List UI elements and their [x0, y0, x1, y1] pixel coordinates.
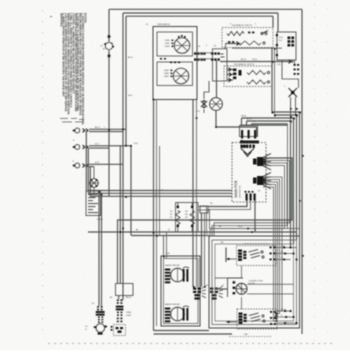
svg-text:P1: P1	[266, 155, 268, 157]
svg-text:P8: P8	[206, 285, 208, 287]
svg-text:(8101P547-60): (8101P547-60)	[240, 185, 242, 197]
svg-text:P7: P7	[222, 285, 224, 287]
svg-text:W-14: W-14	[128, 95, 132, 97]
svg-text:DSI: DSI	[205, 233, 208, 235]
svg-text:BR-16: BR-16	[126, 297, 131, 299]
svg-text:BAKE RELAY: BAKE RELAY	[165, 303, 181, 306]
svg-text:BK-12: BK-12	[128, 57, 133, 59]
svg-text:LAMP: LAMP	[164, 69, 170, 72]
svg-text:N-GRD: N-GRD	[97, 219, 103, 221]
svg-text:P2: P2	[214, 46, 216, 48]
svg-text:OVEN: OVEN	[165, 46, 171, 48]
svg-text:LAMP: LAMP	[164, 75, 170, 78]
svg-text:LAMP: LAMP	[164, 72, 170, 75]
svg-text:BK-12: BK-12	[95, 127, 100, 129]
svg-text:L1: L1	[155, 195, 157, 197]
svg-text:OVEN: OVEN	[165, 40, 171, 42]
svg-text:SURFACE UNITS: SURFACE UNITS	[234, 63, 255, 66]
svg-text:P3: P3	[258, 191, 260, 193]
svg-text:P4: P4	[146, 24, 148, 26]
svg-text:2: 2	[206, 45, 207, 47]
svg-text:MAIN PCB: MAIN PCB	[234, 180, 238, 198]
svg-text:OR-14: OR-14	[241, 116, 246, 118]
svg-text:P9: P9	[198, 46, 200, 48]
svg-text:R-14: R-14	[281, 245, 285, 247]
svg-text:SURFACE UNITS: SURFACE UNITS	[232, 24, 253, 27]
svg-text:GY-16: GY-16	[252, 59, 257, 61]
svg-text:R-10: R-10	[134, 143, 138, 145]
svg-text:SERVICING.: SERVICING.	[59, 13, 62, 28]
svg-text:8: 8	[230, 24, 231, 26]
svg-text:OVEN SENSOR: OVEN SENSOR	[157, 24, 171, 26]
svg-text:OVEN: OVEN	[126, 312, 132, 314]
svg-text:P3: P3	[92, 303, 94, 305]
svg-text:W-14: W-14	[238, 226, 242, 228]
svg-text:R-12: R-12	[95, 143, 99, 145]
svg-text:BU-14: BU-14	[247, 119, 252, 121]
svg-text:OVEN: OVEN	[165, 43, 171, 45]
svg-text:P2: P2	[266, 174, 268, 176]
svg-text:BAKE RELAY: BAKE RELAY	[165, 264, 181, 267]
svg-text:BR-16: BR-16	[241, 59, 246, 61]
svg-text:L2: L2	[72, 160, 74, 162]
svg-text:BK-14: BK-14	[281, 309, 286, 311]
svg-text:V-16: V-16	[277, 64, 281, 66]
svg-text:L2: L2	[161, 190, 163, 192]
svg-text:6: 6	[255, 24, 256, 26]
svg-text:1: 1	[222, 41, 223, 43]
svg-text:1: 1	[104, 127, 105, 129]
svg-text:W-12: W-12	[95, 162, 99, 164]
